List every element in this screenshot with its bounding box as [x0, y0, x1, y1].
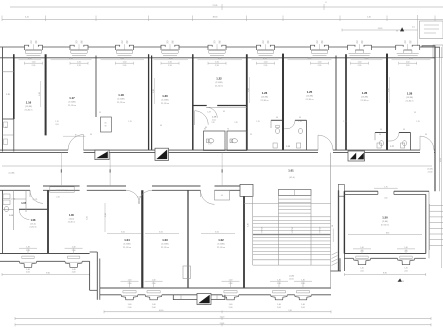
window dims bottom-middle c=279: [270, 280, 288, 282]
section marker 1: [95, 150, 109, 160]
svg-text:21,30 m: 21,30 m: [306, 99, 314, 101]
door arc into 1.08: [19, 209, 29, 219]
svg-text:4,35: 4,35: [218, 58, 222, 60]
svg-text:1,40: 1,40: [26, 269, 30, 271]
svg-text:55: 55: [99, 112, 101, 114]
svg-text:1,20: 1,20: [248, 223, 250, 226]
central porch protrusion bottom wall: [173, 295, 225, 300]
svg-text:(5,2): (5,2): [212, 119, 216, 121]
svg-text:90: 90: [379, 134, 381, 136]
svg-text:2,95: 2,95: [264, 65, 268, 67]
wall segment outer face: [0, 260, 19, 262]
svg-text:1,97: 1,97: [208, 144, 211, 146]
connection stair hall to right block: [339, 258, 341, 271]
svg-text:1.02: 1.02: [218, 238, 224, 242]
door arc 1.07: [30, 190, 43, 203]
svg-text:60: 60: [105, 123, 107, 125]
svg-text:5,90: 5,90: [388, 88, 390, 92]
svg-text:1,50: 1,50: [406, 61, 410, 63]
svg-text:(2,90): (2,90): [11, 199, 16, 201]
svg-text:21,30 m: 21,30 m: [406, 100, 414, 102]
svg-text:21,30 m: 21,30 m: [217, 247, 225, 249]
svg-text:55: 55: [250, 134, 252, 136]
stair landing level line: [244, 203, 331, 205]
exterior wall inner face: [0, 253, 90, 255]
svg-text:2,95: 2,95: [318, 65, 322, 67]
svg-text:21,30 m: 21,30 m: [161, 247, 169, 249]
svg-text:75: 75: [30, 43, 32, 45]
small right box: [433, 45, 443, 58]
svg-text:21,30 m: 21,30 m: [29, 227, 37, 229]
window c=153.6 with pedestal: [147, 290, 160, 292]
svg-text:1,50: 1,50: [215, 61, 219, 63]
window c=265.5: [256, 47, 258, 50]
window c=79: [69, 47, 71, 50]
svg-text:5,90: 5,90: [105, 213, 107, 217]
svg-text:80: 80: [205, 127, 207, 129]
wall segment outer face: [88, 46, 116, 48]
svg-text:45: 45: [223, 111, 225, 113]
section marker bottom: [197, 294, 211, 305]
door corridor upper 420: [420, 136, 434, 150]
window dim below c=407.7: [399, 62, 417, 64]
section marker 3 double: [348, 151, 365, 161]
room 1.50 outline: [343, 191, 345, 253]
door arc 1.02: [201, 190, 215, 204]
svg-text:1.03: 1.03: [162, 238, 168, 242]
interior wall x=346: [345, 54, 347, 150]
svg-text:1,50: 1,50: [358, 61, 362, 63]
svg-text:90: 90: [403, 129, 405, 131]
stair landing edge: [253, 234, 331, 236]
door corridor upper 318: [318, 135, 333, 150]
window dims bottom-middle c=303: [294, 280, 312, 282]
svg-text:90: 90: [409, 43, 411, 45]
svg-text:1.24: 1.24: [286, 146, 290, 148]
svg-text:21,30: 21,30: [428, 172, 433, 174]
bottom dimension lines: [104, 311, 331, 313]
wall segment outer face: [179, 46, 208, 48]
svg-text:8,90: 8,90: [386, 233, 389, 235]
svg-text:1.07: 1.07: [21, 202, 26, 205]
svg-text:1.25: 1.25: [307, 90, 313, 94]
svg-text:1.22: 1.22: [216, 77, 222, 81]
svg-text:1,40: 1,40: [301, 279, 305, 281]
svg-text:4,35: 4,35: [69, 58, 73, 60]
svg-text:90: 90: [105, 126, 107, 128]
wall segment outer face: [162, 294, 222, 296]
dim inside 1.50: [348, 233, 422, 235]
svg-text:1.27: 1.27: [390, 146, 394, 148]
svg-text:(13,88): (13,88): [25, 106, 32, 108]
wall segment outer face: [371, 257, 398, 259]
svg-text:1.06: 1.06: [69, 214, 74, 217]
staircase lower flights: [253, 216, 331, 218]
dimension line top second: [2, 19, 443, 21]
svg-text:1,40: 1,40: [26, 246, 30, 248]
svg-text:(13,4): (13,4): [69, 218, 75, 220]
window dims bottom-middle c=129.5: [121, 280, 139, 282]
svg-text:21,30 m: 21,30 m: [68, 105, 76, 107]
door niche stair hall to room 1.50: [338, 184, 344, 196]
wall segment outer face: [415, 257, 426, 259]
svg-text:21,30 m: 21,30 m: [68, 222, 76, 224]
wall segment outer face: [37, 260, 65, 262]
window c=230.5 with pedestal: [224, 290, 237, 292]
wall segment outer face: [226, 46, 257, 48]
svg-text:90: 90: [380, 129, 382, 131]
niche with label in corridor lower wall: [50, 187, 74, 192]
staircase upper flight: [277, 190, 279, 265]
svg-text:1,70: 1,70: [343, 121, 346, 123]
grid line x=61.3: [60, 153, 62, 186]
step in 1.02 corner: [183, 266, 190, 279]
svg-text:1.23: 1.23: [262, 91, 268, 95]
step left block to middle block: [89, 261, 91, 290]
interior wall x=13.8: [13, 54, 15, 119]
window centreline right block: [405, 249, 407, 253]
svg-text:1,70: 1,70: [128, 121, 131, 123]
svg-text:21,30 m: 21,30 m: [123, 247, 131, 249]
window centreline right block: [361, 249, 363, 253]
svg-text:10,90: 10,90: [159, 310, 164, 312]
svg-text:4,35: 4,35: [120, 58, 124, 60]
svg-text:90: 90: [299, 117, 301, 119]
interior wall x=151.6: [151, 56, 153, 151]
svg-text:4,35: 4,35: [28, 58, 32, 60]
svg-text:21,30 m: 21,30 m: [161, 103, 169, 105]
window c=129.5 with pedestal: [123, 290, 136, 292]
left lower block walls: [2, 190, 4, 253]
svg-text:1.20: 1.20: [162, 94, 168, 98]
svg-text:9,60: 9,60: [46, 273, 50, 275]
svg-text:21,30 m: 21,30 m: [361, 100, 369, 102]
svg-text:75: 75: [404, 43, 406, 45]
wall segment outer face: [372, 46, 396, 48]
svg-text:1,50: 1,50: [318, 61, 322, 63]
svg-text:(2,80): (2,80): [382, 221, 388, 223]
svg-text:(1,08): (1,08): [9, 172, 15, 174]
stair hall right boundary: [330, 153, 332, 288]
room width dim: [288, 59, 332, 61]
svg-text:2,95: 2,95: [168, 65, 172, 67]
window centreline left block: [73, 249, 75, 254]
svg-text:VYSTUP: VYSTUP: [262, 227, 264, 233]
svg-text:2,95: 2,95: [215, 65, 219, 67]
svg-text:2,05: 2,05: [55, 124, 58, 126]
grid line x=110.1: [109, 153, 111, 186]
svg-text:1,40: 1,40: [72, 269, 76, 271]
window dim below c=124.5: [116, 62, 134, 64]
left edge rooms cut by crop: [2, 47, 4, 151]
svg-text:2,10: 2,10: [56, 197, 59, 199]
svg-text:75: 75: [213, 43, 215, 45]
svg-text:2,00: 2,00: [72, 272, 76, 274]
svg-text:90: 90: [361, 43, 363, 45]
window dim below c=319.5: [311, 62, 329, 64]
svg-text:21,30 m: 21,30 m: [117, 102, 125, 104]
svg-text:(1,08): (1,08): [289, 276, 294, 278]
window centreline left block: [27, 249, 29, 254]
svg-text:1,29: 1,29: [207, 112, 210, 114]
stair top landing: [278, 190, 311, 196]
right exterior wall: [434, 47, 436, 191]
svg-text:80: 80: [5, 127, 7, 129]
corridor centre line: [2, 165, 432, 167]
svg-text:70: 70: [227, 128, 229, 130]
svg-text:47,30 m: 47,30 m: [381, 224, 389, 226]
svg-text:1,40: 1,40: [360, 267, 363, 269]
bathrooms rooms 1.23/1.25: [271, 119, 282, 121]
window c=319.5: [310, 47, 312, 50]
svg-text:1,40: 1,40: [128, 304, 132, 306]
svg-text:4,0: 4,0: [412, 27, 415, 29]
vertical dim in room: [40, 81, 42, 107]
svg-text:0,5: 0,5: [221, 195, 223, 197]
svg-text:1,50: 1,50: [77, 61, 81, 63]
window centreline bottom: [129, 282, 131, 288]
svg-text:2,95: 2,95: [77, 65, 81, 67]
svg-text:(13,88): (13,88): [361, 97, 368, 99]
window centreline bottom: [278, 282, 280, 288]
window c=303 with pedestal: [296, 290, 309, 292]
interior wall x=148.6: [148, 54, 150, 150]
window dim below c=170: [161, 62, 179, 64]
vestibule box corridor to stair hall: [240, 184, 253, 196]
svg-text:1,40: 1,40: [229, 304, 233, 306]
corridor lower wall: [0, 185, 30, 187]
svg-text:90: 90: [75, 134, 77, 136]
interior wall x=336: [335, 56, 337, 151]
wall segment outer face: [287, 294, 294, 296]
vertical dim in room: [249, 77, 251, 103]
wall below room 1.22: [193, 105, 207, 107]
window c=362 with pedestal: [356, 255, 368, 257]
svg-text:1.04: 1.04: [124, 238, 130, 242]
interior wall x=283: [282, 54, 284, 151]
interior wall x=96: [95, 56, 97, 118]
svg-text:(13,88): (13,88): [118, 99, 125, 101]
svg-text:8,90: 8,90: [383, 273, 387, 275]
svg-text:1.01: 1.01: [288, 168, 294, 172]
exterior wall inner face: [344, 253, 425, 255]
room width dim: [51, 59, 92, 61]
wall segment outer face: [100, 294, 121, 296]
wall segment outer face: [138, 294, 146, 296]
svg-text:4,35: 4,35: [169, 58, 173, 60]
room width dim: [392, 59, 431, 61]
svg-text:4,25: 4,25: [25, 17, 29, 19]
svg-text:1.50: 1.50: [382, 216, 388, 220]
fixtures left edge lower: [3, 194, 10, 199]
svg-text:21,30 m: 21,30 m: [25, 109, 33, 111]
svg-text:75: 75: [262, 43, 264, 45]
wc cells side by side: [204, 131, 226, 151]
svg-text:2,95: 2,95: [123, 65, 127, 67]
toilet 2: [232, 139, 238, 143]
svg-text:1.15: 1.15: [6, 94, 10, 96]
right edge vertical dim: [441, 47, 443, 268]
svg-text:24,30: 24,30: [378, 28, 383, 30]
svg-text:7,60: 7,60: [288, 310, 292, 312]
svg-text:1,50: 1,50: [123, 61, 127, 63]
marker bottom right: [398, 278, 402, 281]
svg-text:90: 90: [160, 125, 162, 127]
svg-text:90: 90: [172, 43, 174, 45]
window dims right block c=406: [397, 248, 415, 250]
svg-text:23,95: 23,95: [440, 158, 442, 162]
svg-text:5,90: 5,90: [153, 89, 155, 93]
svg-text:1,40: 1,40: [152, 304, 156, 306]
svg-text:55: 55: [414, 112, 416, 114]
svg-text:90: 90: [126, 43, 128, 45]
svg-text:28: 28: [332, 225, 334, 227]
svg-text:2,00: 2,00: [360, 270, 363, 272]
svg-text:(13,88): (13,88): [69, 102, 76, 104]
svg-text:2,95: 2,95: [406, 65, 410, 67]
svg-text:1,40: 1,40: [72, 246, 76, 248]
wall segment outer face: [82, 260, 89, 262]
door arcs entry zone: [195, 111, 209, 125]
window dim below c=359.5: [351, 62, 369, 64]
svg-text:75: 75: [356, 43, 358, 45]
room width dim: [252, 59, 279, 61]
fixture left room: [4, 122, 8, 128]
window c=406 with pedestal: [400, 255, 412, 257]
door room 1.50: [377, 191, 379, 194]
wall segment outer face: [311, 294, 331, 296]
svg-text:2,00: 2,00: [26, 272, 30, 274]
svg-text:2,45: 2,45: [367, 17, 371, 19]
svg-text:57,05: 57,05: [213, 5, 218, 7]
wall x=244 stair side: [243, 196, 245, 288]
wall x=48 lower-left: [47, 190, 49, 253]
window centreline bottom: [302, 282, 304, 288]
window c=124.5: [115, 47, 117, 50]
wall segment outer face: [43, 46, 71, 48]
svg-text:1,40: 1,40: [152, 279, 156, 281]
svg-text:90: 90: [81, 43, 83, 45]
svg-text:90: 90: [321, 43, 323, 45]
text lines in box: [424, 24, 439, 26]
window c=73.6 with pedestal: [67, 255, 79, 257]
window dim below c=33.5: [25, 62, 43, 64]
svg-text:1.16: 1.16: [26, 101, 32, 105]
room width dim: [198, 59, 243, 61]
room width dim: [101, 59, 145, 61]
wall segment outer face: [0, 46, 25, 48]
exterior wall inner face: [100, 287, 331, 289]
svg-text:4,35: 4,35: [409, 58, 413, 60]
svg-text:(1,08): (1,08): [428, 169, 433, 171]
bathrooms rooms 1.26/1.28: [375, 132, 386, 134]
svg-text:1.18: 1.18: [118, 93, 124, 97]
svg-text:22,05: 22,05: [289, 278, 294, 280]
window centreline bottom: [153, 282, 155, 288]
window dims right block c=362: [353, 248, 371, 250]
stair left edge: [252, 190, 254, 265]
top wall right corner: [422, 46, 440, 58]
top-right detail box: [420, 21, 443, 39]
svg-text:(13,88): (13,88): [406, 97, 413, 99]
window c=28 with pedestal: [22, 255, 34, 257]
svg-text:(13,88): (13,88): [162, 100, 169, 102]
wall x=338.5: [338, 190, 340, 271]
svg-text:(13,88): (13,88): [216, 82, 223, 84]
room width dim: [19, 59, 42, 61]
wall segment outer face: [134, 46, 162, 48]
toilet 1: [208, 139, 214, 143]
svg-text:1,50: 1,50: [32, 61, 36, 63]
window c=359.5: [347, 47, 349, 50]
svg-text:(45,0): (45,0): [289, 177, 295, 179]
svg-text:1,70: 1,70: [55, 121, 58, 123]
window dim below c=79: [70, 62, 88, 64]
svg-text:21,30 m: 21,30 m: [215, 85, 223, 87]
svg-text:5,90: 5,90: [87, 216, 89, 220]
door corridor upper 68: [68, 135, 84, 151]
svg-text:(13,88): (13,88): [306, 96, 313, 98]
svg-text:(13,88): (13,88): [218, 244, 225, 246]
wall x=188: [187, 190, 189, 288]
dim line under right block: [344, 274, 425, 276]
room width dim: [351, 59, 383, 61]
svg-text:75: 75: [75, 43, 77, 45]
svg-text:1.26: 1.26: [362, 91, 368, 95]
dim line right segment: [342, 29, 418, 31]
window dim below c=217: [208, 62, 226, 64]
svg-text:5,90: 5,90: [39, 92, 41, 96]
svg-text:2,00: 2,00: [229, 307, 233, 309]
svg-text:4,35: 4,35: [365, 58, 369, 60]
window c=217: [207, 47, 209, 50]
window c=407.7: [395, 47, 397, 50]
north arrow: [400, 27, 404, 31]
svg-text:2,00: 2,00: [404, 270, 407, 272]
svg-text:2,00: 2,00: [384, 198, 387, 200]
dim line under left block: [2, 274, 90, 276]
svg-text:90: 90: [219, 43, 221, 45]
svg-text:2,95: 2,95: [358, 65, 362, 67]
svg-text:1,29: 1,29: [211, 122, 214, 124]
svg-text:4,35: 4,35: [263, 58, 267, 60]
closet room 1.02 top: [215, 190, 230, 200]
svg-text:1.08: 1.08: [31, 219, 36, 222]
wall segment outer face: [275, 46, 311, 48]
svg-text:VYSTUP: VYSTUP: [319, 227, 321, 233]
svg-text:4,35: 4,35: [308, 58, 312, 60]
svg-text:1.17: 1.17: [69, 96, 75, 100]
svg-text:(13,0): (13,0): [30, 223, 36, 225]
wall segment outer face: [329, 46, 348, 48]
svg-text:90: 90: [267, 43, 269, 45]
exterior wall inner face: [0, 57, 435, 59]
svg-text:1,75: 1,75: [384, 186, 387, 188]
vertical dim in room: [389, 77, 391, 103]
svg-text:75: 75: [166, 43, 168, 45]
wall segment outer face: [344, 257, 353, 259]
svg-text:1.05: 1.05: [137, 197, 140, 199]
svg-text:48,30: 48,30: [213, 17, 218, 19]
svg-text:90: 90: [425, 134, 427, 136]
svg-text:1,70: 1,70: [256, 121, 259, 123]
window c=33.5: [24, 47, 26, 50]
interior wall x=387: [386, 54, 388, 151]
svg-text:90: 90: [35, 43, 37, 45]
svg-text:1,29: 1,29: [234, 122, 237, 124]
hatch strip right of stair: [332, 252, 338, 255]
window dim below c=265.5: [257, 62, 275, 64]
